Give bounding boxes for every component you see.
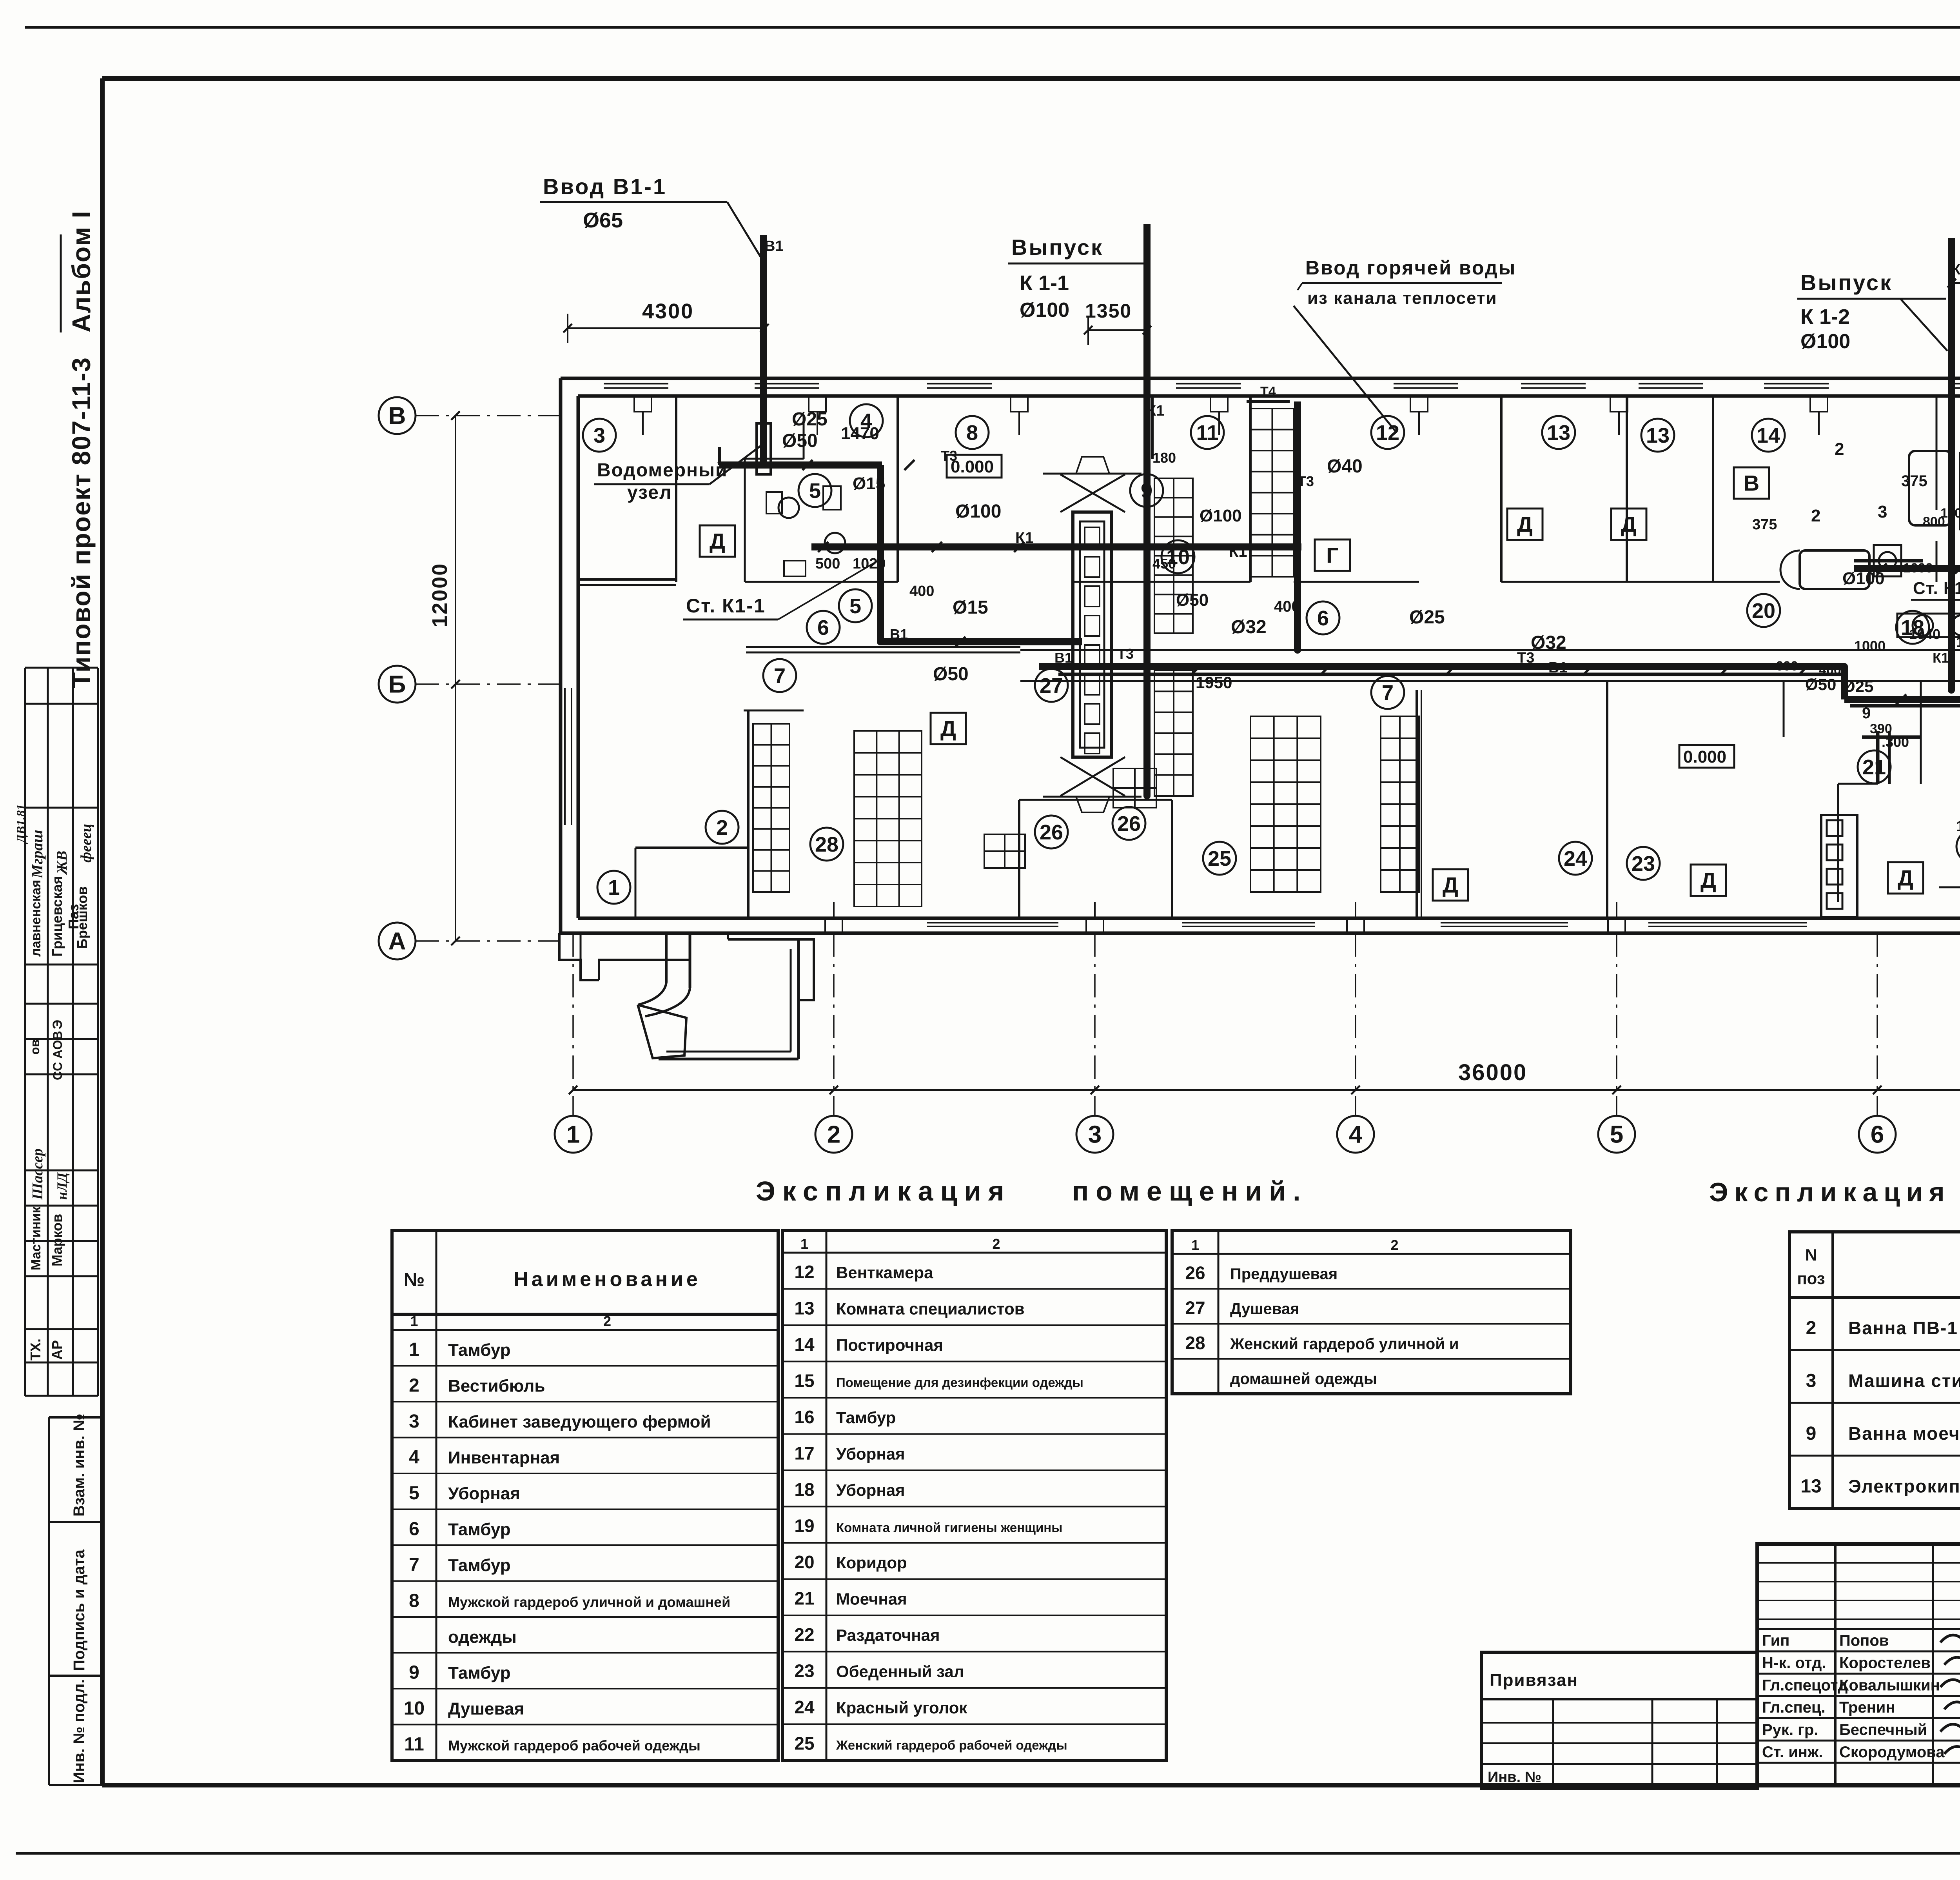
svg-text:Женский гардероб уличной и: Женский гардероб уличной и xyxy=(1230,1335,1459,1353)
svg-text:12000: 12000 xyxy=(428,563,452,627)
svg-text:К1: К1 xyxy=(1229,543,1247,560)
svg-text:Д: Д xyxy=(940,716,956,741)
svg-text:Ванна ПВ-1: Ванна ПВ-1 xyxy=(1848,1318,1958,1338)
svg-text:фееец: фееец xyxy=(78,824,94,863)
svg-text:В: В xyxy=(388,403,406,430)
svg-text:2: 2 xyxy=(1806,1318,1817,1339)
svg-text:Экспликация: Экспликация xyxy=(756,1176,1011,1206)
svg-text:Ковалышкин: Ковалышкин xyxy=(1839,1677,1940,1694)
svg-text:поз: поз xyxy=(1797,1269,1825,1288)
svg-text:АОВ: АОВ xyxy=(51,1031,65,1059)
svg-text:К 1-1: К 1-1 xyxy=(1020,271,1069,295)
svg-text:14: 14 xyxy=(1757,424,1780,447)
svg-text:450: 450 xyxy=(1152,556,1176,572)
svg-text:2: 2 xyxy=(992,1236,1000,1252)
svg-text:3: 3 xyxy=(1088,1121,1102,1148)
svg-text:19: 19 xyxy=(794,1515,814,1536)
svg-text:1350: 1350 xyxy=(1085,300,1132,322)
svg-text:Уборная: Уборная xyxy=(836,1444,905,1463)
svg-text:2: 2 xyxy=(1811,506,1820,525)
svg-text:Мграш: Мграш xyxy=(28,830,46,879)
svg-text:Электрокипятильник КНЭ-50: Электрокипятильник КНЭ-50 xyxy=(1848,1476,1960,1497)
svg-text:1: 1 xyxy=(1191,1237,1199,1253)
svg-text:Шассер: Шассер xyxy=(29,1148,46,1200)
svg-text:Преддушевая: Преддушевая xyxy=(1230,1265,1338,1282)
svg-text:Д: Д xyxy=(1621,512,1637,537)
svg-text:Ø100: Ø100 xyxy=(955,501,1001,522)
svg-text:Б: Б xyxy=(388,671,406,698)
svg-text:27: 27 xyxy=(1040,674,1063,698)
svg-text:Кабинет заведующего фермой: Кабинет заведующего фермой xyxy=(448,1412,711,1431)
svg-text:Д: Д xyxy=(1443,873,1458,897)
svg-text:2: 2 xyxy=(409,1375,419,1396)
svg-text:5: 5 xyxy=(1610,1121,1623,1148)
svg-text:Наименование: Наименование xyxy=(514,1268,701,1291)
svg-text:Ø100: Ø100 xyxy=(1020,299,1069,322)
svg-text:Н-к. отд.: Н-к. отд. xyxy=(1762,1655,1826,1672)
svg-text:Т4: Т4 xyxy=(1260,384,1276,399)
svg-text:Т3: Т3 xyxy=(1298,473,1314,489)
svg-text:3: 3 xyxy=(1878,502,1887,521)
svg-text:Красный уголок: Красный уголок xyxy=(836,1698,967,1717)
svg-text:Э: Э xyxy=(50,1020,65,1029)
svg-text:15: 15 xyxy=(794,1370,814,1391)
svg-text:Скородумова: Скородумова xyxy=(1839,1744,1945,1761)
svg-text:6: 6 xyxy=(409,1519,419,1539)
svg-text:1: 1 xyxy=(410,1313,418,1329)
svg-text:Вестибюль: Вестибюль xyxy=(448,1376,545,1395)
svg-text:1040: 1040 xyxy=(1909,626,1940,642)
svg-text:Моечная: Моечная xyxy=(836,1589,907,1608)
svg-text:11: 11 xyxy=(1196,421,1218,445)
svg-text:Ø25: Ø25 xyxy=(1409,607,1445,628)
svg-text:600: 600 xyxy=(1776,659,1798,674)
svg-text:Марков: Марков xyxy=(49,1214,65,1266)
svg-text:6: 6 xyxy=(1317,607,1329,630)
svg-text:Попов: Попов xyxy=(1839,1632,1889,1649)
svg-text:3: 3 xyxy=(1806,1371,1817,1391)
svg-text:К1: К1 xyxy=(1933,650,1949,666)
svg-text:Мужской гардероб рабочей одежд: Мужской гардероб рабочей одежды xyxy=(448,1737,701,1753)
svg-text:Ø100: Ø100 xyxy=(1842,569,1885,588)
svg-text:27: 27 xyxy=(1185,1298,1205,1318)
svg-text:13: 13 xyxy=(1956,818,1960,835)
svg-text:2: 2 xyxy=(603,1313,611,1329)
svg-text:2: 2 xyxy=(827,1121,840,1148)
svg-text:0.000: 0.000 xyxy=(1683,747,1726,767)
svg-text:13: 13 xyxy=(794,1298,814,1318)
svg-text:4: 4 xyxy=(409,1447,419,1468)
svg-text:10: 10 xyxy=(404,1698,425,1719)
svg-text:3: 3 xyxy=(409,1411,419,1432)
svg-text:Рук. гр.: Рук. гр. xyxy=(1762,1721,1818,1738)
svg-text:Ø40: Ø40 xyxy=(1327,456,1363,477)
svg-text:СС: СС xyxy=(51,1062,65,1080)
svg-text:Ст. К1-1: Ст. К1-1 xyxy=(686,595,766,617)
svg-text:8: 8 xyxy=(966,421,978,445)
svg-text:Тамбур: Тамбур xyxy=(448,1663,511,1682)
svg-text:2: 2 xyxy=(1390,1237,1398,1253)
svg-text:Тамбур: Тамбур xyxy=(448,1520,511,1539)
svg-text:Т3: Т3 xyxy=(1517,650,1534,666)
svg-text:20: 20 xyxy=(794,1552,814,1572)
svg-text:17: 17 xyxy=(794,1443,814,1463)
svg-text:Комната личной гигиены женщины: Комната личной гигиены женщины xyxy=(836,1520,1062,1535)
svg-text:1: 1 xyxy=(800,1236,808,1252)
svg-text:Душевая: Душевая xyxy=(448,1699,524,1718)
svg-text:1: 1 xyxy=(566,1121,580,1148)
svg-text:Гип: Гип xyxy=(1762,1632,1789,1649)
svg-text:400: 400 xyxy=(1274,598,1300,615)
svg-text:7: 7 xyxy=(1382,681,1394,705)
svg-text:В1: В1 xyxy=(764,238,784,254)
svg-text:23: 23 xyxy=(1632,852,1655,876)
svg-text:Уборная: Уборная xyxy=(448,1484,520,1503)
svg-text:Ø25: Ø25 xyxy=(1842,677,1873,696)
svg-text:2: 2 xyxy=(1835,440,1844,459)
svg-text:Тренин: Тренин xyxy=(1839,1699,1895,1716)
svg-text:Г: Г xyxy=(1326,543,1339,568)
svg-text:21: 21 xyxy=(794,1588,814,1608)
svg-text:Беспечный: Беспечный xyxy=(1839,1721,1927,1738)
svg-text:18: 18 xyxy=(794,1479,814,1500)
svg-text:24: 24 xyxy=(794,1697,815,1717)
svg-text:Тамбур: Тамбур xyxy=(448,1341,511,1360)
svg-text:3: 3 xyxy=(593,424,605,447)
svg-text:Комната специалистов: Комната специалистов xyxy=(836,1299,1025,1318)
svg-text:9: 9 xyxy=(1862,705,1871,722)
svg-text:В1: В1 xyxy=(1054,650,1073,666)
svg-text:6: 6 xyxy=(1871,1121,1884,1148)
svg-text:Привязан: Привязан xyxy=(1490,1671,1578,1690)
svg-text:В1: В1 xyxy=(1548,659,1568,676)
svg-text:1: 1 xyxy=(608,876,620,899)
svg-text:Ø15: Ø15 xyxy=(853,474,885,493)
svg-text:12: 12 xyxy=(794,1262,814,1282)
svg-text:1100: 1100 xyxy=(1940,506,1960,521)
svg-text:Ø50: Ø50 xyxy=(1176,590,1209,610)
svg-text:1: 1 xyxy=(409,1339,419,1360)
svg-text:Т3: Т3 xyxy=(1117,646,1134,662)
svg-text:Д: Д xyxy=(710,529,725,554)
svg-text:36000: 36000 xyxy=(1458,1060,1527,1085)
svg-text:Типовой проект 807-11-3: Типовой проект 807-11-3 xyxy=(67,357,96,688)
svg-text:Коридор: Коридор xyxy=(836,1553,907,1572)
svg-text:ТХ.: ТХ. xyxy=(27,1339,44,1361)
svg-text:Инвентарная: Инвентарная xyxy=(448,1448,560,1467)
svg-text:375: 375 xyxy=(1901,472,1927,490)
svg-text:Ø32: Ø32 xyxy=(1531,632,1566,653)
svg-text:Ø32: Ø32 xyxy=(1231,617,1267,638)
svg-text:Мастиник: Мастиник xyxy=(29,1206,44,1270)
svg-text:400: 400 xyxy=(909,583,934,599)
svg-text:лавненская: лавненская xyxy=(29,880,44,957)
svg-text:9: 9 xyxy=(409,1662,419,1683)
svg-text:Выпуск: Выпуск xyxy=(1800,270,1893,295)
svg-text:Ø50: Ø50 xyxy=(1805,675,1836,694)
svg-text:1470: 1470 xyxy=(841,424,879,443)
svg-text:Д: Д xyxy=(1517,512,1533,537)
svg-text:N: N xyxy=(1805,1246,1817,1264)
svg-text:узел: узел xyxy=(627,482,672,503)
svg-text:4: 4 xyxy=(1349,1121,1363,1148)
svg-text:Грицевская: Грицевская xyxy=(49,876,65,957)
svg-text:1000: 1000 xyxy=(1854,638,1886,654)
svg-text:12: 12 xyxy=(1376,421,1399,445)
svg-text:Мужской гардероб уличной и дом: Мужской гардероб уличной и домашней xyxy=(448,1594,730,1610)
svg-text:1000: 1000 xyxy=(1903,561,1933,576)
svg-text:Т3: Т3 xyxy=(941,448,957,464)
svg-text:Душевая: Душевая xyxy=(1230,1301,1299,1318)
svg-text:13: 13 xyxy=(1547,421,1570,445)
svg-text:К1: К1 xyxy=(1015,529,1034,547)
svg-text:Ø100: Ø100 xyxy=(1800,330,1850,353)
svg-text:Выпуск: Выпуск xyxy=(1011,235,1103,260)
svg-text:4300: 4300 xyxy=(642,300,694,323)
svg-text:Помещение для дезинфекции одеж: Помещение для дезинфекции одежды xyxy=(836,1375,1083,1390)
svg-text:Гл.спец.: Гл.спец. xyxy=(1762,1699,1826,1716)
svg-text:24: 24 xyxy=(1564,847,1587,870)
svg-text:Инв. № подл.: Инв. № подл. xyxy=(71,1679,88,1783)
svg-text:21: 21 xyxy=(1862,756,1886,779)
svg-text:Коростелев: Коростелев xyxy=(1839,1655,1931,1672)
svg-text:Обеденный зал: Обеденный зал xyxy=(836,1662,964,1680)
svg-text:Ø100: Ø100 xyxy=(1200,506,1242,525)
svg-text:К1: К1 xyxy=(1951,262,1960,278)
svg-text:Тамбур: Тамбур xyxy=(448,1556,511,1575)
svg-text:Гл.спецотд: Гл.спецотд xyxy=(1762,1677,1847,1694)
svg-text:помещений.: помещений. xyxy=(1072,1176,1308,1206)
svg-text:8: 8 xyxy=(409,1590,419,1611)
svg-text:20: 20 xyxy=(1752,599,1775,623)
svg-text:№: № xyxy=(404,1270,425,1290)
svg-text:180: 180 xyxy=(1152,450,1176,466)
svg-text:одежды: одежды xyxy=(448,1628,517,1647)
svg-text:11: 11 xyxy=(404,1734,424,1755)
svg-text:1020: 1020 xyxy=(853,556,886,572)
svg-text:9: 9 xyxy=(1806,1423,1817,1444)
svg-text:Подпись и дата: Подпись и дата xyxy=(71,1549,88,1671)
svg-text:7: 7 xyxy=(774,664,786,688)
svg-text:Ø25: Ø25 xyxy=(792,409,828,430)
svg-text:К1: К1 xyxy=(1147,403,1164,419)
svg-text:ДВ1.81: ДВ1.81 xyxy=(14,804,28,844)
svg-text:Ст. К1-2: Ст. К1-2 xyxy=(1913,579,1960,598)
svg-text:Д: Д xyxy=(1898,866,1913,890)
svg-text:5: 5 xyxy=(409,1483,419,1504)
svg-text:2: 2 xyxy=(716,816,728,839)
svg-text:28: 28 xyxy=(815,833,838,856)
svg-text:Альбом I: Альбом I xyxy=(67,210,96,332)
svg-text:В1: В1 xyxy=(890,626,908,642)
svg-text:26: 26 xyxy=(1185,1262,1205,1283)
svg-text:Раздаточная: Раздаточная xyxy=(836,1626,940,1644)
svg-text:А: А xyxy=(388,928,406,955)
svg-text:Взам. инв. №: Взам. инв. № xyxy=(71,1414,88,1517)
svg-text:Ø65: Ø65 xyxy=(583,209,623,232)
svg-text:Ø50: Ø50 xyxy=(933,664,969,685)
svg-text:9: 9 xyxy=(1141,479,1152,503)
svg-text:Машина стиральная КП-114: Машина стиральная КП-114 xyxy=(1848,1371,1960,1391)
svg-text:13: 13 xyxy=(1800,1476,1821,1497)
svg-text:7: 7 xyxy=(409,1555,419,1575)
svg-text:Ø15: Ø15 xyxy=(953,597,988,618)
svg-text:Женский гардероб рабочей одежд: Женский гардероб рабочей одежды xyxy=(836,1738,1067,1752)
svg-text:1270: 1270 xyxy=(1956,634,1960,650)
svg-text:ЖВ: ЖВ xyxy=(54,851,70,876)
svg-text:5: 5 xyxy=(849,594,861,618)
svg-text:.300: .300 xyxy=(1882,734,1909,750)
svg-text:Водомерный: Водомерный xyxy=(597,460,728,481)
svg-text:25: 25 xyxy=(794,1733,814,1753)
svg-text:В: В xyxy=(1744,471,1759,496)
svg-text:Постирочная: Постирочная xyxy=(836,1336,943,1354)
svg-text:из канала теплосети: из канала теплосети xyxy=(1307,289,1497,308)
svg-text:16: 16 xyxy=(794,1407,814,1427)
svg-text:25: 25 xyxy=(1208,847,1231,870)
svg-text:Паз: Паз xyxy=(65,904,82,929)
svg-text:Ванна моечная ВМ I-Iсм: Ванна моечная ВМ I-Iсм xyxy=(1848,1423,1960,1444)
svg-text:14: 14 xyxy=(794,1334,815,1355)
svg-text:6: 6 xyxy=(817,616,829,639)
svg-text:Ø50: Ø50 xyxy=(782,430,818,451)
svg-text:Экспликация: Экспликация xyxy=(1709,1177,1951,1207)
svg-text:5: 5 xyxy=(809,479,821,503)
svg-text:28: 28 xyxy=(1185,1333,1205,1353)
svg-text:22: 22 xyxy=(794,1624,814,1645)
svg-text:Ввод горячей воды: Ввод горячей воды xyxy=(1305,257,1516,279)
svg-text:23: 23 xyxy=(794,1660,814,1681)
svg-text:Уборная: Уборная xyxy=(836,1481,905,1499)
svg-text:К 1-2: К 1-2 xyxy=(1800,305,1850,329)
svg-text:26: 26 xyxy=(1040,821,1063,844)
svg-text:Тамбур: Тамбур xyxy=(836,1408,896,1427)
svg-text:Ст. инж.: Ст. инж. xyxy=(1762,1744,1823,1761)
svg-text:Инв. №: Инв. № xyxy=(1488,1769,1541,1786)
svg-text:1950: 1950 xyxy=(1196,673,1232,692)
svg-text:АР: АР xyxy=(49,1340,65,1360)
svg-text:375: 375 xyxy=(1752,516,1777,533)
svg-text:нЛД: нЛД xyxy=(54,1172,70,1200)
svg-text:Венткамера: Венткамера xyxy=(836,1263,933,1282)
svg-text:26: 26 xyxy=(1117,812,1141,836)
svg-text:домашней одежды: домашней одежды xyxy=(1230,1370,1377,1388)
svg-text:Ввод В1-1: Ввод В1-1 xyxy=(543,174,667,199)
svg-text:13: 13 xyxy=(1646,424,1670,447)
svg-text:500: 500 xyxy=(815,556,840,572)
svg-text:Д: Д xyxy=(1700,868,1716,893)
svg-text:ов: ов xyxy=(28,1039,42,1055)
